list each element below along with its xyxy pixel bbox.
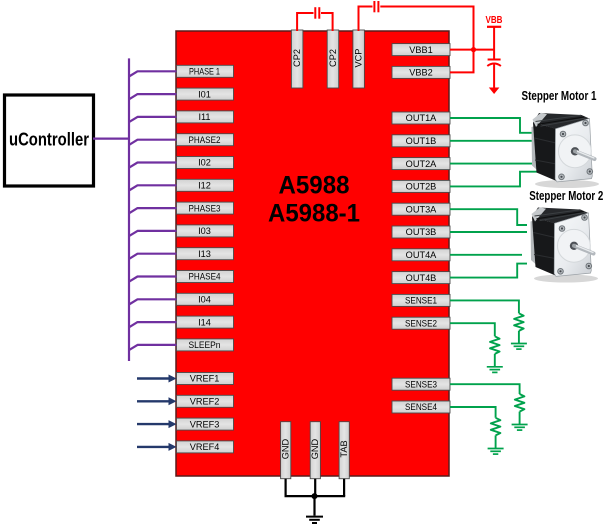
wire OUT1B to motor1 [450, 140, 539, 142]
wire uController to bus [93, 138, 129, 140]
pin OUT3B [392, 226, 450, 238]
capacitor C1 (CP2-CP2) [315, 7, 319, 19]
svg-text:PHASE4: PHASE4 [189, 272, 221, 282]
wire bus to I13 [129, 254, 177, 259]
wire OUT4B to motor2 [450, 264, 527, 278]
junction VBB1/rail [471, 47, 476, 52]
resistor R1 (SENSE1) [514, 313, 524, 331]
wire OUT3B to motor2 [450, 231, 527, 233]
svg-text:I01: I01 [198, 89, 211, 99]
svg-text:I02: I02 [198, 158, 211, 168]
svg-text:VBB1: VBB1 [409, 45, 433, 55]
wire OUT4A to motor2 [450, 254, 522, 256]
pin GND (bottom) [310, 422, 320, 479]
ground SENSE4 (green) [488, 449, 504, 455]
wire TAB down [343, 479, 345, 496]
svg-text:SENSE2: SENSE2 [405, 318, 437, 328]
svg-text:PHASE2: PHASE2 [189, 135, 221, 145]
pin VREF1 [177, 373, 234, 385]
resistor R2 (SENSE2) [490, 336, 500, 354]
wire ground bus [285, 495, 346, 497]
pin I14 [177, 316, 234, 328]
pin VREF3 [177, 418, 234, 430]
wire C3 to power ground [493, 65, 495, 89]
svg-text:CP2: CP2 [292, 49, 302, 67]
svg-text:SENSE1: SENSE1 [405, 296, 437, 306]
svg-text:SENSE3: SENSE3 [405, 379, 437, 389]
input arrow VREF1 [137, 375, 177, 383]
wire bus to I03 [129, 231, 177, 236]
svg-text:I11: I11 [198, 112, 210, 122]
junction ground net [312, 493, 318, 499]
wire bus to I02 [129, 163, 177, 168]
svg-text:CP2: CP2 [328, 49, 338, 67]
ground SENSE3 (green) [512, 425, 528, 431]
wire CP2a to C1 [297, 13, 313, 31]
VBB supply symbol [486, 15, 503, 60]
pin VBB2 [392, 66, 450, 78]
uController U2 box [5, 95, 94, 186]
stepper motor 2 [531, 207, 599, 282]
svg-text:PHASE3: PHASE3 [189, 203, 221, 213]
wire VCP to C2 [359, 7, 373, 32]
svg-text:OUT1A: OUT1A [406, 113, 438, 123]
svg-text:VBB2: VBB2 [409, 68, 433, 78]
svg-text:SLEEPn: SLEEPn [189, 340, 221, 350]
svg-text:I14: I14 [198, 317, 211, 327]
pin I12 [177, 179, 234, 191]
wire C1 to CP2b [321, 13, 333, 31]
pin OUT4A [392, 249, 450, 261]
svg-text:GND: GND [281, 438, 291, 459]
wire bus to I04 [129, 299, 177, 304]
capacitor C2 (VCP-VBB) [374, 1, 378, 12]
wire GND2 down [314, 479, 316, 496]
pin I02 [177, 157, 234, 169]
power ground arrow (red) [489, 88, 500, 95]
bus (vertical) [128, 58, 130, 361]
svg-text:I04: I04 [198, 295, 211, 305]
resistor R4 (SENSE4) [491, 418, 501, 436]
pin I03 [177, 225, 234, 237]
pin OUT2B [392, 180, 450, 192]
svg-text:OUT4B: OUT4B [406, 273, 437, 283]
input arrow VREF4 [137, 443, 177, 451]
pin OUT2A [392, 158, 450, 170]
pin GND (bottom) [281, 422, 291, 479]
wire SENSE4 to R4 [450, 407, 496, 418]
svg-text:TAB: TAB [339, 440, 349, 457]
svg-text:VREF1: VREF1 [190, 374, 220, 384]
svg-text:A5988-1: A5988-1 [268, 200, 360, 228]
pin SENSE2 [392, 317, 450, 329]
svg-text:VREF4: VREF4 [190, 442, 220, 452]
pin CP2 (top) [291, 30, 303, 88]
svg-text:I12: I12 [198, 181, 211, 191]
pin OUT3A [392, 203, 450, 215]
pin CP2 (top) [327, 30, 339, 88]
pin VREF4 [177, 441, 234, 453]
wire R4 to ground [495, 435, 497, 448]
pin I01 [177, 88, 234, 100]
pin SENSE4 [392, 401, 450, 413]
svg-text:Stepper Motor 1: Stepper Motor 1 [522, 89, 597, 103]
svg-text:VREF2: VREF2 [190, 397, 220, 407]
wire bus to I14 [129, 322, 177, 327]
svg-text:OUT2A: OUT2A [406, 159, 438, 169]
wire R3 to ground [519, 412, 521, 425]
svg-text:OUT3A: OUT3A [406, 204, 438, 214]
wire VBB2 to rail [450, 71, 475, 73]
wire bus to I01 [129, 94, 177, 99]
wire bus to I12 [129, 185, 177, 190]
wire R2 to ground [494, 354, 496, 367]
pin SENSE3 [392, 378, 450, 390]
wire OUT3A to motor2 [450, 209, 527, 225]
pin OUT4B [392, 272, 450, 284]
svg-text:VBB: VBB [486, 15, 503, 26]
wire GND1 down [285, 479, 287, 496]
pin I13 [177, 248, 234, 260]
wire bus to SLEEPn [129, 345, 177, 350]
wire R1 to ground [518, 331, 520, 344]
resistor R3 (SENSE3) [515, 394, 525, 412]
wire SENSE2 to R2 [450, 323, 495, 336]
wire OUT2A to motor1 [450, 163, 537, 165]
wire OUT2B to motor1 [450, 172, 539, 187]
wire junction to ground symbol [313, 496, 315, 515]
wire VBB1 to VBB net [450, 49, 494, 51]
capacitor C3 (VBB bulk) [487, 60, 501, 67]
pin VBB1 [392, 44, 450, 56]
svg-text:VCP: VCP [353, 49, 363, 68]
wire bus to PHASE3 [129, 208, 177, 213]
input arrow VREF2 [137, 397, 177, 405]
svg-text:SENSE4: SENSE4 [405, 402, 437, 412]
pin I11 [177, 111, 234, 123]
pin PHASE3 [177, 202, 234, 214]
svg-text:OUT1B: OUT1B [406, 136, 437, 146]
svg-text:A5988: A5988 [279, 172, 350, 200]
IC U1 part number label [268, 172, 360, 228]
pin VCP (top) [353, 30, 365, 88]
wire SENSE3 to R3 [450, 384, 520, 394]
pin SLEEPn [177, 339, 234, 351]
pin OUT1B [392, 135, 450, 147]
wire OUT1A to motor1 [450, 118, 534, 133]
wire bus to PHASE2 [129, 140, 177, 145]
svg-text:PHASE 1: PHASE 1 [189, 67, 220, 77]
pin VREF2 [177, 395, 234, 407]
svg-text:GND: GND [310, 438, 320, 459]
input arrow VREF3 [137, 420, 177, 428]
svg-text:OUT3B: OUT3B [406, 227, 437, 237]
svg-text:Stepper Motor 2: Stepper Motor 2 [529, 189, 603, 203]
pin PHASE1 [177, 65, 234, 77]
svg-text:I03: I03 [198, 226, 211, 236]
pin TAB (bottom) [339, 422, 349, 479]
svg-text:OUT4A: OUT4A [406, 250, 438, 260]
pin SENSE1 [392, 294, 450, 306]
ground SENSE1 (green) [511, 344, 527, 350]
svg-text:I13: I13 [198, 249, 211, 259]
svg-text:VREF3: VREF3 [190, 419, 220, 429]
pin I04 [177, 293, 234, 305]
pin PHASE2 [177, 134, 234, 146]
wire bus to PHASE4 [129, 277, 177, 282]
pin OUT1A [392, 112, 450, 124]
wire bus to I11 [129, 117, 177, 122]
svg-text:OUT2B: OUT2B [406, 182, 437, 192]
ground symbol (black) [306, 517, 323, 523]
wire C2 to VBB rail [380, 7, 473, 73]
pin PHASE4 [177, 271, 234, 283]
svg-text:uController: uController [9, 130, 89, 150]
IC U1 A5988 body [176, 31, 449, 476]
wire SENSE1 to R1 [450, 300, 519, 313]
wire bus to PHASE1 [129, 71, 177, 76]
ground SENSE2 (green) [487, 367, 503, 373]
stepper motor 1 [532, 113, 600, 188]
